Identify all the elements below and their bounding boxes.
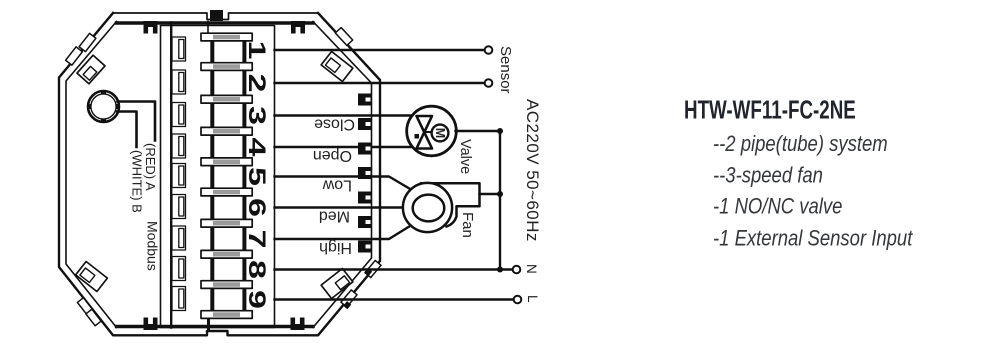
terminal cage 9 (172, 287, 186, 311)
svg-text:2: 2 (243, 74, 270, 93)
valve motor circle (407, 106, 457, 156)
bottom edge clip left (144, 318, 158, 331)
top notch clip (210, 10, 223, 21)
terminal ladder bars (10) (201, 33, 252, 318)
svg-text:6: 6 (243, 198, 270, 217)
top edge clip left (144, 21, 158, 34)
cable clip 6 (358, 216, 371, 228)
svg-text:-1 NO/NC valve: -1 NO/NC valve (713, 195, 842, 219)
mounting bracket TL (77, 55, 105, 84)
ladder bar 9 (201, 281, 252, 289)
cable clip 1 (358, 94, 371, 106)
wire terminal4 Open to valve (275, 146, 416, 148)
fan circle (403, 183, 452, 232)
wire terminal5 Low to fan (275, 177, 412, 190)
ladder bar 10 (201, 311, 252, 319)
mounting bracket BR (321, 268, 353, 298)
svg-text:Fan: Fan (459, 212, 476, 238)
terminal cage 7 (172, 226, 186, 250)
svg-text:3: 3 (243, 106, 270, 125)
seam tab at L wire crossing (341, 290, 357, 307)
svg-text:(WHITE) B: (WHITE) B (130, 150, 145, 213)
terminal cage strip (9 cages) (172, 37, 186, 311)
wire terminal3 Close to valve (275, 114, 416, 116)
modbus sensor circle (88, 91, 119, 122)
cable clip 5 (358, 192, 371, 204)
svg-text:Modbus: Modbus (145, 221, 161, 271)
seam tab TL-2 (79, 33, 96, 51)
svg-text:1: 1 (243, 41, 270, 60)
ladder bar 7 (201, 219, 252, 227)
wire terminal8 to N (275, 268, 513, 270)
seam tab TL-1 (66, 47, 83, 65)
terminal cage 1 (172, 37, 186, 61)
cage strip rail (170, 23, 172, 328)
mounting bracket TR (321, 51, 353, 81)
terminal cage 6 (172, 195, 186, 219)
wire terminal2 to sensor (275, 82, 485, 84)
fan inner ellipse (413, 195, 445, 222)
right edge cable clips (358, 94, 371, 253)
terminal cage 4 (172, 134, 186, 158)
svg-text:4: 4 (243, 138, 270, 158)
ladder bottom stub (207, 318, 210, 329)
svg-text:HTW-WF11-FC-2NE: HTW-WF11-FC-2NE (684, 94, 856, 124)
ladder bar 1 (201, 33, 252, 41)
svg-text:-1 External Sensor Input: -1 External Sensor Input (713, 227, 914, 251)
ladder bar 6 (201, 188, 252, 196)
svg-text:Open: Open (313, 147, 352, 164)
svg-text:Close: Close (314, 116, 355, 133)
terminal cage 2 (172, 70, 186, 94)
terminal ladder rails (212, 37, 244, 315)
svg-text:9: 9 (243, 290, 270, 309)
thermostat body inner outline (66, 22, 372, 328)
wire modbus A (118, 102, 156, 141)
svg-text:5: 5 (243, 167, 270, 186)
top edge clip right (291, 21, 305, 34)
junction valve (497, 128, 503, 134)
L terminal circle (514, 296, 522, 304)
valve output wire (456, 130, 501, 132)
terminal cage 3 (172, 103, 186, 127)
N terminal circle (513, 266, 521, 274)
svg-text:L: L (525, 295, 540, 303)
terminal cage 8 (172, 257, 186, 281)
cable clip 7 (358, 241, 371, 253)
junction N (497, 267, 503, 273)
svg-text:7: 7 (243, 230, 270, 249)
svg-text:--2 pipe(tube) system: --2 pipe(tube) system (713, 133, 888, 157)
ladder bar 3 (201, 95, 252, 103)
junction fan (497, 191, 503, 197)
valve drain dot (415, 134, 420, 139)
mounting bracket BL (76, 261, 108, 291)
svg-text:High: High (319, 239, 352, 256)
terminal block housing (161, 26, 275, 328)
cable clip 3 (358, 143, 371, 155)
ladder top stub (207, 22, 209, 35)
valve bowtie symbol (417, 116, 433, 149)
ladder bar 5 (201, 158, 252, 166)
ladder bar 2 (201, 63, 252, 71)
bottom edge clip right (291, 318, 305, 331)
ladder bar 8 (201, 250, 252, 258)
terminal numbers 1-9 (243, 41, 270, 310)
svg-text:M: M (433, 128, 447, 138)
svg-text:Sensor: Sensor (497, 46, 514, 94)
seam tab at N wire crossing (365, 260, 381, 277)
cable clip 4 (358, 167, 371, 179)
fan output wire (480, 193, 501, 195)
ladder bar 4 (201, 127, 252, 135)
fan blower duct (421, 183, 480, 226)
sensor terminal circle 1 (485, 46, 493, 54)
wire modbus B (117, 112, 137, 148)
svg-text:Low: Low (322, 177, 352, 194)
svg-text:Valve: Valve (457, 139, 473, 174)
valve M circle (432, 125, 449, 142)
svg-text:--3-speed fan: --3-speed fan (713, 164, 823, 188)
wire terminal7 High to fan (275, 226, 411, 239)
svg-text:N: N (524, 264, 539, 274)
sensor terminal circle 2 (485, 79, 493, 87)
wire terminal1 to sensor (275, 49, 485, 51)
seam tab BL-1 (77, 298, 92, 314)
thermostat body outer outline (59, 13, 380, 335)
terminal cage 5 (172, 164, 186, 188)
svg-text:Med: Med (319, 208, 350, 225)
svg-text:8: 8 (243, 260, 270, 279)
wire terminal9 to L (275, 298, 515, 300)
seam tab TR (335, 28, 352, 46)
wire terminal6 Med to fan (275, 206, 405, 208)
cable clip 2 (358, 118, 371, 130)
valve motor link (424, 131, 433, 133)
seam tab BL-2 (86, 309, 101, 325)
vertical bus wire (499, 131, 501, 270)
svg-text:AC220V 50~60Hz: AC220V 50~60Hz (523, 99, 542, 242)
